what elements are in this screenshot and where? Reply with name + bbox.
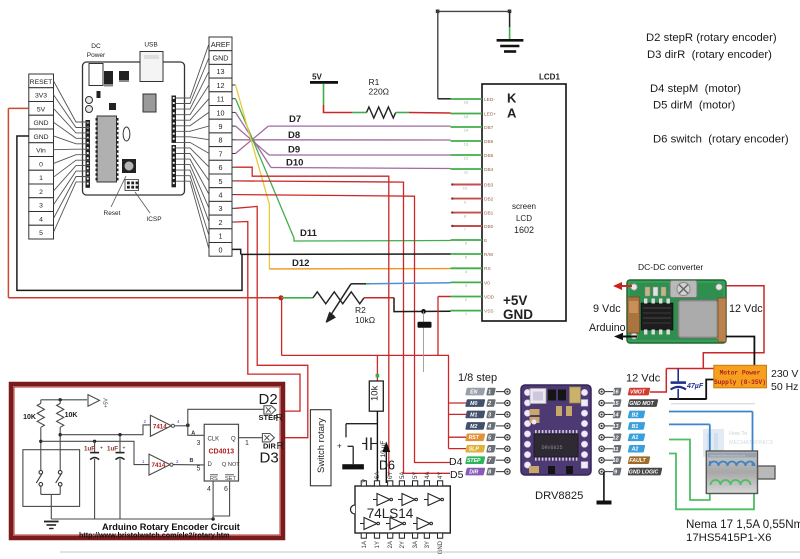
svg-text:10K: 10K [65,412,78,419]
svg-text:R1: R1 [369,77,380,87]
svg-text:Q NOT: Q NOT [222,462,240,468]
svg-text:DB3: DB3 [484,182,494,188]
svg-text:13: 13 [217,67,225,76]
svg-text:+5V: +5V [104,398,110,408]
svg-text:2: 2 [219,218,223,227]
svg-text:6Y: 6Y [388,472,394,479]
svg-text:D6 switch (rotary encoder): D6 switch (rotary encoder) [653,134,789,146]
svg-text:Supply (8-35V): Supply (8-35V) [714,379,766,386]
svg-text:How To: How To [729,431,747,437]
svg-text:Nema 17 1,5A 0,55Nm: Nema 17 1,5A 0,55Nm [686,518,800,531]
svg-text:0: 0 [219,245,223,254]
svg-text:D6: D6 [379,459,395,473]
svg-text:5: 5 [39,230,43,237]
svg-text:USB: USB [144,42,157,49]
svg-text:GND: GND [33,120,48,127]
svg-text:DRV8825: DRV8825 [541,445,562,451]
svg-text:5Y: 5Y [413,472,419,479]
svg-text:4A: 4A [425,472,431,479]
svg-text:B1: B1 [632,424,639,430]
svg-text:M0: M0 [470,401,477,407]
svg-text:GND LOGIC: GND LOGIC [629,469,659,475]
svg-text:15: 15 [612,401,619,407]
svg-text:www.HowToMechatronics.com: www.HowToMechatronics.com [710,454,745,458]
svg-text:4: 4 [207,486,211,493]
svg-text:RESET: RESET [30,79,53,86]
svg-text:RS: RS [210,476,218,482]
svg-text:GND: GND [33,134,48,141]
svg-text:B2: B2 [632,412,639,418]
svg-text:A2: A2 [631,447,639,453]
svg-text:12: 12 [612,435,619,441]
svg-text:9 Vdc: 9 Vdc [593,303,621,315]
svg-text:D2 stepR (rotary encoder): D2 stepR (rotary encoder) [646,32,777,44]
svg-text:+: + [337,442,342,451]
svg-text:10kΩ: 10kΩ [355,315,375,325]
svg-text:D7: D7 [289,114,301,125]
svg-text:6A: 6A [375,472,381,479]
svg-text:D4 stepM (motor): D4 stepM (motor) [650,83,741,95]
svg-text:1A: 1A [362,541,368,548]
svg-text:10: 10 [217,108,225,117]
svg-text:D4: D4 [449,456,463,468]
svg-text:CLK: CLK [208,437,220,443]
svg-text:LED-: LED- [484,97,495,103]
svg-text:R: R [276,412,284,424]
svg-text:K: K [507,91,517,106]
svg-text:RS: RS [484,266,491,272]
svg-text:0: 0 [39,161,43,168]
svg-text:13: 13 [612,424,619,430]
svg-text:10: 10 [612,458,619,464]
svg-text:Reset: Reset [104,210,121,217]
svg-text:LED+: LED+ [484,111,496,117]
svg-text:7414: 7414 [153,423,167,430]
svg-text:15: 15 [464,114,469,119]
svg-text:FAULT: FAULT [629,458,646,464]
svg-text:3: 3 [197,440,201,447]
svg-text:ICSP: ICSP [146,216,161,223]
svg-text:D5 dirM (motor): D5 dirM (motor) [653,100,735,112]
svg-text:DB5: DB5 [484,153,494,159]
svg-text:5: 5 [197,466,201,473]
svg-text:+5V: +5V [503,293,527,308]
svg-text:47µF: 47µF [686,383,704,390]
svg-text:12 Vdc: 12 Vdc [729,303,763,315]
svg-text:1: 1 [488,390,491,396]
svg-text:6: 6 [224,486,228,493]
svg-text:12: 12 [217,81,225,90]
svg-text:http://www.bristolwatch.com/el: http://www.bristolwatch.com/ele2/rotary.… [79,531,230,540]
svg-text:DB6: DB6 [484,139,494,145]
svg-text:GND: GND [213,54,229,63]
svg-text:3A: 3A [413,541,419,548]
svg-text:220Ω: 220Ω [369,87,390,97]
svg-text:10K: 10K [23,414,36,421]
svg-text:+: + [100,446,103,452]
svg-text:3: 3 [39,203,43,210]
svg-text:D10: D10 [286,158,303,169]
svg-text:DB4: DB4 [484,167,494,173]
svg-text:3: 3 [219,204,223,213]
svg-text:GND MOT: GND MOT [629,401,654,407]
svg-text:4Y: 4Y [438,472,444,479]
svg-text:1/8 step: 1/8 step [458,372,497,384]
svg-text:50 Hz: 50 Hz [771,381,798,393]
svg-text:MECHATRONICS: MECHATRONICS [729,440,774,446]
svg-text:2Y: 2Y [400,541,406,548]
svg-text:9: 9 [219,122,223,131]
svg-text:12: 12 [464,156,469,161]
svg-text:screen: screen [512,202,536,211]
svg-text:CD4013: CD4013 [208,449,234,456]
svg-text:10k: 10k [369,385,380,401]
svg-text:V: V [362,479,368,483]
svg-text:8: 8 [219,136,223,145]
svg-text:DB7: DB7 [484,125,494,131]
svg-text:D11: D11 [300,228,318,239]
svg-text:3V3: 3V3 [35,93,47,100]
svg-text:DB2: DB2 [484,197,494,203]
svg-text:DB0: DB0 [484,224,494,230]
svg-text:D9: D9 [288,145,300,156]
svg-text:VSS: VSS [484,309,494,315]
svg-text:M2: M2 [470,424,477,430]
svg-text:5V: 5V [312,73,322,82]
svg-text:RST: RST [469,435,480,441]
svg-text:R2: R2 [355,305,366,315]
svg-text:GND: GND [503,307,533,322]
svg-text:Vin: Vin [36,148,46,155]
svg-text:D12: D12 [292,258,309,269]
svg-text:SLP: SLP [469,447,480,453]
svg-text:+: + [123,446,126,452]
svg-text:1: 1 [219,232,223,241]
svg-text:E: E [484,238,487,244]
svg-text:D3: D3 [260,450,279,467]
svg-text:7: 7 [219,149,223,158]
svg-text:1: 1 [245,440,249,447]
svg-text:13: 13 [464,142,469,147]
svg-text:D: D [208,462,213,468]
svg-text:DC-DC converter: DC-DC converter [638,262,703,272]
svg-text:230 V: 230 V [771,368,798,380]
svg-text:V0: V0 [484,280,490,286]
svg-text:17HS5415P1-X6: 17HS5415P1-X6 [686,532,772,544]
svg-text:1Y: 1Y [375,541,381,548]
svg-text:LCD1: LCD1 [539,73,560,82]
svg-text:Switch rotary: Switch rotary [316,418,327,473]
svg-text:DIR: DIR [469,469,478,475]
svg-text:7414: 7414 [152,462,166,469]
svg-text:11: 11 [217,95,224,104]
svg-text:STEP: STEP [467,458,481,464]
svg-text:14: 14 [464,128,469,133]
svg-text:DB1: DB1 [484,211,494,217]
svg-text:1uF: 1uF [84,446,95,453]
svg-text:DC: DC [91,43,101,50]
svg-text:10: 10 [463,185,468,190]
svg-text:VDD: VDD [484,294,495,300]
svg-text:M1: M1 [470,412,477,418]
svg-text:EN: EN [470,389,477,395]
svg-text:16: 16 [612,390,619,396]
svg-text:Q: Q [231,437,236,443]
svg-text:6: 6 [219,163,223,172]
svg-text:SET: SET [225,476,236,482]
svg-text:A1: A1 [631,435,639,441]
svg-text:AREF: AREF [211,40,231,49]
svg-text:2: 2 [39,189,43,196]
svg-text:12 Vdc: 12 Vdc [626,373,661,385]
svg-text:4: 4 [39,216,43,223]
svg-text:VMOT: VMOT [630,389,646,395]
svg-text:DRV8825: DRV8825 [535,490,583,502]
svg-text:5: 5 [219,177,223,186]
svg-text:A: A [191,431,195,437]
svg-text:2A: 2A [388,541,394,548]
svg-text:1uF: 1uF [107,446,118,453]
svg-text:D3 dirR (rotary encoder): D3 dirR (rotary encoder) [647,49,772,61]
svg-text:11: 11 [613,447,619,453]
svg-text:Power: Power [87,52,106,59]
svg-text:D5: D5 [450,469,464,481]
svg-text:B: B [190,458,194,464]
svg-text:R/W: R/W [484,252,494,258]
svg-text:5A: 5A [400,472,406,479]
svg-text:16: 16 [464,100,469,105]
svg-text:Motor Power: Motor Power [720,369,761,376]
svg-text:3Y: 3Y [425,541,431,548]
svg-text:A: A [507,106,517,121]
svg-text:D2: D2 [259,391,278,408]
svg-text:Arduino: Arduino [589,322,626,334]
svg-text:4: 4 [219,191,223,200]
svg-text:D8: D8 [288,130,300,141]
svg-text:14: 14 [612,412,619,418]
svg-text:5V: 5V [37,106,46,113]
svg-text:1602: 1602 [514,225,534,235]
svg-text:1: 1 [39,175,43,182]
svg-text:LCD: LCD [516,214,532,223]
